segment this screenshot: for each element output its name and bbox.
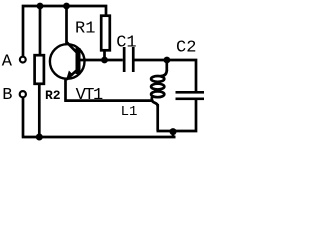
svg-text:R1: R1	[75, 20, 95, 39]
svg-text:L1: L1	[121, 104, 138, 120]
svg-text:A: A	[2, 53, 13, 72]
svg-text:C2: C2	[176, 39, 196, 58]
svg-text:C1: C1	[116, 33, 136, 52]
svg-text:B: B	[2, 86, 12, 105]
svg-text:R2: R2	[45, 88, 61, 103]
svg-text:VT1: VT1	[76, 86, 103, 105]
